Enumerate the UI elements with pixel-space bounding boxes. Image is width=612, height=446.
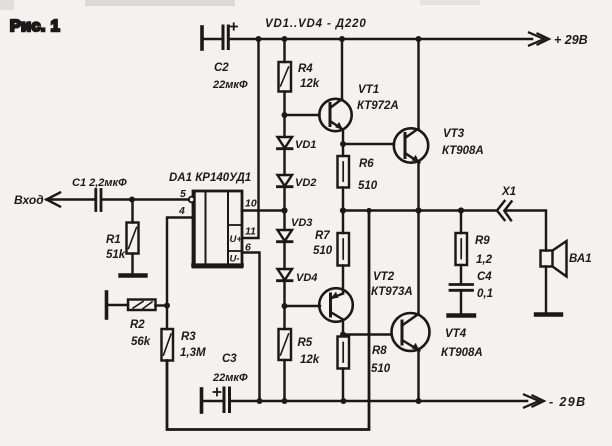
label VT1 xyxy=(357,84,399,112)
ground bar under BA1 xyxy=(536,312,561,316)
terminal bar at C3 xyxy=(200,389,204,412)
node: rail/VT4 emitter xyxy=(416,398,422,404)
op-amp DA1 box xyxy=(193,191,242,267)
svg-text:VD3: VD3 xyxy=(291,217,312,229)
node: rail/VT3 collector xyxy=(416,36,422,42)
svg-text:R2: R2 xyxy=(130,319,145,331)
wire node to VT4 base xyxy=(343,333,391,335)
capacitor C3 xyxy=(214,388,230,412)
svg-text:5: 5 xyxy=(180,188,186,200)
ground bar under C4 xyxy=(449,313,475,317)
wire: +29V rail xyxy=(230,38,532,41)
svg-text:R3: R3 xyxy=(181,331,196,343)
svg-text:4: 4 xyxy=(178,205,185,217)
node: R4/VD1/VT1 base xyxy=(282,112,288,118)
diode VD4 xyxy=(278,269,293,281)
wire: pin 6 (U-) down to -29V rail xyxy=(242,253,260,402)
wire: -29V rail xyxy=(231,400,527,403)
svg-text:11: 11 xyxy=(245,226,256,238)
label C3 value xyxy=(212,353,248,384)
svg-text:С3: С3 xyxy=(222,353,237,365)
svg-text:+ 29В: + 29В xyxy=(554,33,588,47)
capacitor C1 xyxy=(96,190,101,211)
node: rail/R5 xyxy=(282,398,288,404)
svg-text:ВА1: ВА1 xyxy=(569,253,592,265)
resistor R2 xyxy=(128,300,156,311)
wire R2 to node xyxy=(156,304,168,306)
resistor R8 xyxy=(338,337,350,402)
node C1/R1 xyxy=(129,197,135,203)
node: rail/U+ supply line xyxy=(256,36,262,42)
svg-text:12k: 12k xyxy=(300,78,320,90)
node: rail/R4 xyxy=(282,36,288,42)
resistor R5 xyxy=(279,329,292,401)
node VT3-VT4/output xyxy=(415,207,421,213)
svg-text:VD1..VD4 - Д220: VD1..VD4 - Д220 xyxy=(265,18,367,30)
svg-text:КТ908А: КТ908А xyxy=(442,145,484,157)
svg-text:КТ908А: КТ908А xyxy=(441,347,483,359)
svg-text:22мкФ: 22мкФ xyxy=(212,79,248,91)
wire: node to VT1 base xyxy=(285,114,320,116)
capacitor C2 xyxy=(223,23,237,48)
svg-text:Вход: Вход xyxy=(14,193,44,207)
resistor R3 xyxy=(162,329,174,361)
node feedback/output line xyxy=(366,208,371,213)
svg-text:R4: R4 xyxy=(298,63,313,75)
node: rail/R8 xyxy=(341,398,347,404)
wire: bar to C2 xyxy=(203,38,221,40)
label R7 xyxy=(313,230,333,257)
svg-text:510: 510 xyxy=(358,180,378,192)
svg-text:U-: U- xyxy=(230,254,240,265)
transistor VT1 xyxy=(319,39,351,144)
label VT3 xyxy=(442,128,484,157)
wire xyxy=(283,281,285,329)
wire node to VT3 base xyxy=(343,143,394,145)
speaker BA1 xyxy=(541,241,567,277)
wire xyxy=(283,242,285,269)
wire pin 10 to diode chain xyxy=(242,209,285,211)
transistor VT3 xyxy=(394,39,428,211)
node VT2 collector / R8 / VT4 base xyxy=(340,332,346,338)
pin 5 circle xyxy=(189,197,195,203)
svg-text:R5: R5 xyxy=(298,337,313,349)
svg-text:VT3: VT3 xyxy=(443,128,465,140)
svg-text:R8: R8 xyxy=(372,345,387,357)
wire: rail down to pin 11 (U+) xyxy=(242,39,259,238)
node R9/output xyxy=(458,207,464,213)
label R2 xyxy=(130,319,151,348)
connector X1 xyxy=(497,201,512,220)
transistor VT4 xyxy=(392,211,430,402)
label C4 xyxy=(477,271,493,300)
resistor R6 xyxy=(338,144,350,211)
node: rail/VT1 collector xyxy=(339,36,345,42)
svg-text:R6: R6 xyxy=(359,158,374,170)
label VT4 xyxy=(441,328,483,359)
svg-text:С2: С2 xyxy=(214,62,229,74)
svg-text:0,1: 0,1 xyxy=(477,288,493,300)
terminal bar at C2 xyxy=(200,27,204,49)
svg-text:КТ972А: КТ972А xyxy=(357,100,399,112)
svg-text:10: 10 xyxy=(245,198,257,210)
node VT1 emitter / VT3 base / R6 xyxy=(340,141,346,147)
svg-text:R9: R9 xyxy=(475,235,490,247)
node R6/R7/output xyxy=(340,207,346,213)
svg-text:510: 510 xyxy=(371,363,391,375)
ground bar under R1 xyxy=(121,273,146,277)
label R5 xyxy=(298,337,320,366)
wire X1 to speaker xyxy=(505,211,546,251)
svg-text:Рис. 1: Рис. 1 xyxy=(10,18,60,35)
arrow -29V xyxy=(524,395,544,408)
label R4 xyxy=(298,63,320,90)
svg-text:1,3М: 1,3М xyxy=(180,347,206,359)
label R3 xyxy=(180,331,206,359)
svg-text:VD4: VD4 xyxy=(296,272,317,284)
terminal bar at R2 xyxy=(105,292,109,318)
node R2/pin4 line xyxy=(164,303,170,309)
resistor R9 xyxy=(456,211,468,285)
wire bar to R2 xyxy=(108,304,129,306)
svg-text:1,2: 1,2 xyxy=(476,254,493,266)
wire C1 to pin 5 xyxy=(103,198,189,200)
output line wire xyxy=(343,209,497,211)
label R9 xyxy=(475,235,493,266)
svg-text:DA1 КР140УД1: DA1 КР140УД1 xyxy=(169,172,251,184)
svg-text:VT4: VT4 xyxy=(445,328,467,340)
svg-text:X1: X1 xyxy=(501,186,516,198)
label VT2 xyxy=(371,271,413,298)
wire speaker to ground xyxy=(545,267,547,313)
svg-text:С1 2,2мкФ: С1 2,2мкФ xyxy=(72,177,127,189)
label R1 xyxy=(106,234,126,261)
svg-text:22мкФ: 22мкФ xyxy=(212,372,248,384)
svg-text:510: 510 xyxy=(313,245,333,257)
svg-text:VT2: VT2 xyxy=(373,271,395,283)
svg-text:56k: 56k xyxy=(131,336,151,348)
svg-text:С4: С4 xyxy=(477,271,492,283)
diode VD3 xyxy=(278,230,293,242)
wire xyxy=(283,187,285,230)
wire input to C1 xyxy=(47,198,95,200)
resistor R4 xyxy=(279,39,292,136)
svg-text:VD1: VD1 xyxy=(295,139,316,151)
svg-text:- 29В: - 29В xyxy=(549,395,587,409)
label R8 xyxy=(371,345,391,375)
capacitor C4 xyxy=(450,285,473,314)
input arrow xyxy=(47,193,61,207)
node: op-amp output / VD2-VD3 xyxy=(281,207,287,213)
resistor R7 xyxy=(338,211,350,294)
svg-text:12k: 12k xyxy=(300,354,320,366)
resistor R1 xyxy=(127,200,139,274)
label C2 value xyxy=(212,62,248,91)
label R6 xyxy=(358,158,378,192)
diode VD2 xyxy=(278,175,293,187)
svg-text:6: 6 xyxy=(245,242,251,254)
node: rail/pin6 xyxy=(257,398,263,404)
svg-text:R1: R1 xyxy=(106,234,121,246)
wire: node to VT2 base xyxy=(285,305,321,307)
diode VD1 xyxy=(278,137,293,149)
wire pin 4 to feedback node xyxy=(167,218,193,330)
feedback wire R3 bottom to output line xyxy=(167,211,369,430)
svg-text:VD2: VD2 xyxy=(295,177,316,189)
svg-text:51k: 51k xyxy=(106,249,126,261)
wire bar to C3 xyxy=(203,400,223,402)
node: VD4/R5/VT2 base xyxy=(282,303,288,309)
svg-text:КТ973А: КТ973А xyxy=(371,286,413,298)
arrow +29V xyxy=(529,33,549,46)
svg-text:U+: U+ xyxy=(230,234,243,245)
svg-text:VT1: VT1 xyxy=(358,84,379,96)
svg-text:R7: R7 xyxy=(315,230,330,242)
wire xyxy=(283,149,285,175)
transistor VT2 (PNP) xyxy=(319,288,353,334)
